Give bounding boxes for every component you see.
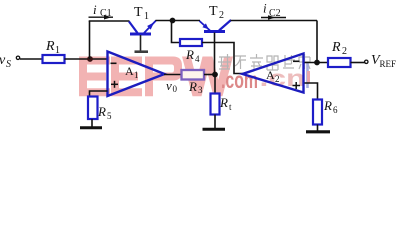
transistor T1 [129,21,156,35]
wire R1 to A1 inverting input [65,58,108,60]
svg-text:5: 5 [107,111,112,121]
label R3 [188,79,203,95]
svg-text:C2: C2 [269,8,281,19]
svg-text:4: 4 [195,54,200,64]
label A2 [266,68,280,84]
resistor R4 [180,39,202,46]
svg-text:R: R [185,47,194,62]
node dot on emitter rail [170,18,176,24]
wire A2 inverting input to R2 node [305,62,329,64]
resistor R2 [328,58,351,67]
label R1 [45,39,60,56]
svg-text:3: 3 [198,85,203,95]
svg-text:1: 1 [134,70,139,80]
svg-text:R: R [331,40,341,55]
wire T2 collector to right rail [231,20,318,22]
wire T2 base down to divider node [214,33,216,75]
svg-text:R: R [45,39,55,54]
op-amp A2 [243,54,304,93]
ground under R5 [80,126,102,129]
svg-text:A: A [266,68,275,82]
svg-text:R: R [97,104,106,119]
current arrow iC1 [89,15,114,20]
ground under R6 [306,130,330,133]
watermark ghost strokes right of A2 [306,62,309,88]
wire node to Rt [214,75,216,94]
wire vS to R1 [20,58,43,60]
svg-text:T: T [134,5,143,20]
transistor T2 [200,20,232,32]
svg-text:1: 1 [144,11,149,22]
svg-text:2: 2 [342,46,347,57]
wire iC1 rail to T1 collector [89,20,130,22]
label R4 [185,47,200,64]
A1 plus sign [111,81,118,88]
wire up from node to iC1 rail [89,21,91,59]
svg-text:i: i [263,1,267,16]
svg-text:i: i [93,2,97,17]
label R6 [323,98,338,115]
terminal circle VREF [365,60,368,63]
label VREF [371,53,396,69]
svg-text:R: R [323,98,332,113]
wire A2 noninverting input to R6 [305,83,318,100]
wire R6 to ground [317,125,319,131]
wire right rail down to R2 node [316,21,318,63]
node junction dot at R1 output [87,56,93,62]
wire from emitter rail down to R4 [172,21,181,43]
ground under Rt [203,128,226,131]
A2 plus sign [293,82,301,89]
label T2 [209,4,224,21]
resistor R1 [43,55,65,63]
label iC1 [93,2,112,19]
resistor R6 [313,100,322,125]
resistor Rt [211,94,220,115]
svg-text:REF: REF [380,59,397,69]
resistor R3 [182,70,205,80]
svg-text:t: t [229,102,232,112]
label iC2 [263,1,281,19]
label T1 [134,5,149,22]
watermark chinese text [218,54,310,70]
wire R4 to A2 output [202,43,243,74]
label A1 [125,64,139,80]
node vS terminal label [0,53,11,70]
svg-text:T: T [209,4,218,19]
wire R3 to node [204,74,215,76]
wire R2 to VREF terminal [351,62,365,64]
label v0 [166,78,178,94]
label R2 [331,40,347,57]
node divider junction dot [212,72,218,78]
wire A1 output v0 [164,74,182,76]
label Rt [219,95,232,112]
svg-text:2: 2 [219,10,224,21]
ground at T1 base [135,50,149,53]
svg-text:v: v [166,78,172,93]
wire A1 noninverting input L [90,91,108,97]
svg-text:R: R [188,79,197,94]
label R5 [97,104,112,121]
wire emitter rail T1 to T2 [156,20,201,22]
A2 minus sign [293,60,300,62]
terminal circle vS [16,56,19,59]
resistor R5 [88,97,98,120]
svg-text:2: 2 [275,74,280,84]
svg-text:1: 1 [55,45,60,56]
svg-text:A: A [125,64,134,78]
wire R5 to ground [91,119,93,127]
svg-text:6: 6 [333,105,338,115]
A1 minus sign [111,62,117,64]
svg-text:0: 0 [173,84,178,94]
svg-text:C1: C1 [100,8,112,19]
svg-text:R: R [219,95,228,110]
current arrow iC2 [261,15,286,20]
node R2 junction dot [314,60,320,66]
op-amp A1 [108,52,165,97]
wire Rt to ground [214,115,216,129]
svg-text:S: S [6,59,11,70]
wire T1 base down [140,35,142,51]
watermark EEPW [79,57,233,97]
